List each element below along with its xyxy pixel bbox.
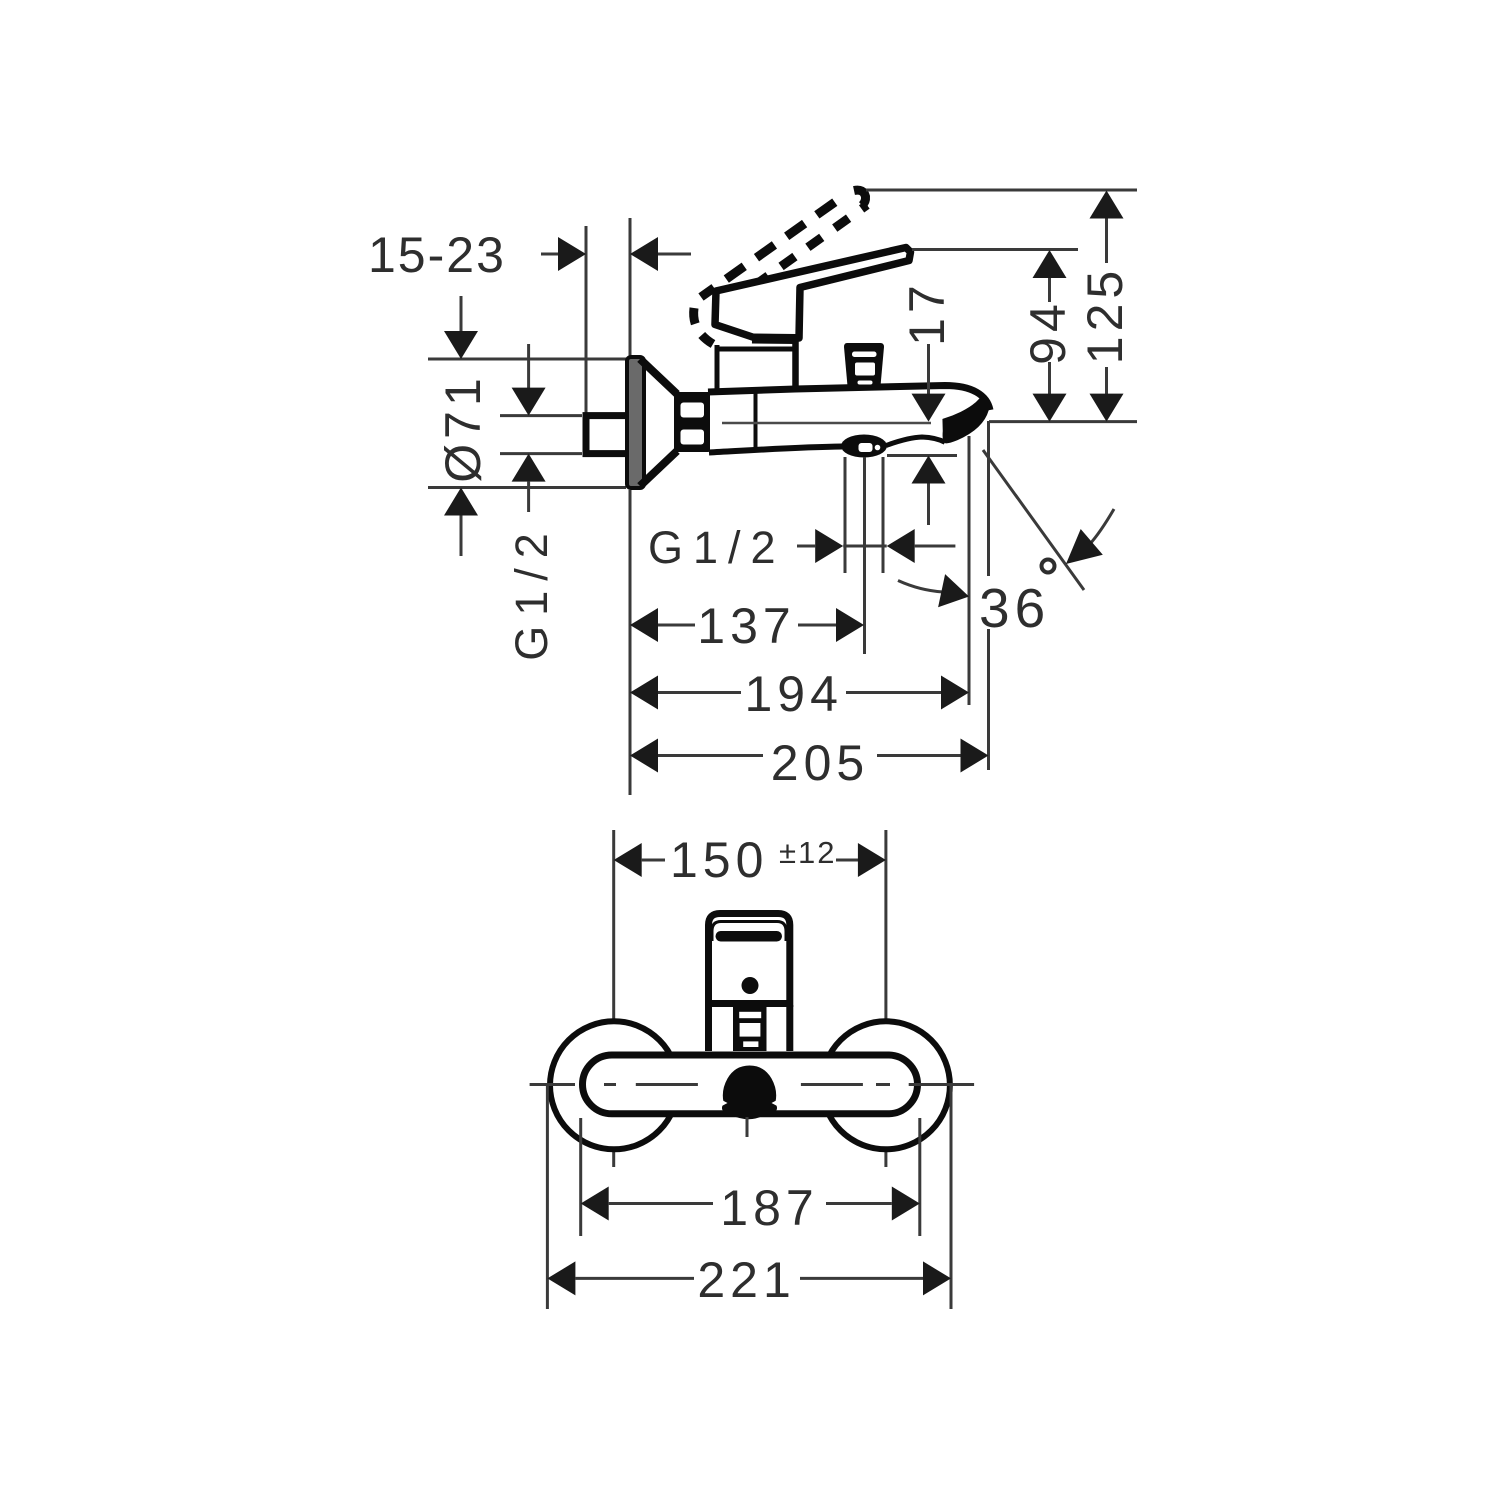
left escutcheon circle — [550, 1021, 678, 1149]
svg-text:G1/2: G1/2 — [648, 522, 786, 573]
label 221 — [697, 1252, 795, 1308]
svg-text:137: 137 — [697, 598, 795, 654]
svg-text:94: 94 — [1020, 299, 1076, 365]
wire: pipe-dia line top y=415.6 — [500, 414, 582, 417]
dimension 150 +-12 — [614, 843, 886, 877]
front centerline tick below blob — [746, 1117, 749, 1137]
label 137 — [697, 598, 795, 654]
label G1/2 horizontal — [648, 522, 786, 573]
wire: 221 extension line left x=547.4 — [546, 1086, 549, 1309]
wire: extension line right connection x=885.9 — [884, 830, 887, 1167]
svg-text:36: 36 — [979, 577, 1050, 639]
dimension 137 — [630, 608, 864, 642]
lever raised dashed bottom edge — [716, 205, 867, 313]
aerator bump — [841, 435, 887, 458]
wire: reference line spout bottom y=455.5 — [887, 454, 957, 457]
label 194 — [744, 666, 842, 722]
dimension 17 — [912, 344, 946, 525]
wire: 187 extension line right x=919.8 — [918, 1118, 921, 1236]
body joint line — [754, 391, 758, 450]
svg-text:205: 205 — [771, 735, 869, 791]
wire: extension line wall-min x=586 — [585, 226, 588, 414]
pipe stub — [586, 416, 630, 454]
escutcheon cone bottom edge — [640, 451, 677, 486]
wire: extension line aerator left x=845 — [844, 457, 847, 573]
diverter knob — [844, 343, 884, 386]
lever raised dashed top edge — [701, 194, 847, 298]
svg-text:Ø71: Ø71 — [435, 373, 491, 483]
label 36deg — [979, 560, 1055, 640]
wire: extension line spout end x=988.5 — [987, 421, 990, 770]
dimension 125 — [1090, 191, 1124, 422]
36 degree arc arrow right — [1066, 509, 1114, 564]
handle dark band — [716, 931, 783, 942]
label G1/2 rotated — [506, 523, 557, 661]
dimension 94 — [1033, 250, 1067, 422]
svg-text:±12: ±12 — [779, 835, 837, 870]
svg-text:17: 17 — [899, 280, 955, 346]
label 15-23 — [368, 227, 506, 283]
body top edge — [708, 386, 990, 411]
wire: pipe-dia line bottom y=453.6 — [500, 452, 582, 455]
wire: extension line aerator right x=883 — [882, 457, 885, 573]
wire: 221 extension line right x=951 — [950, 1086, 953, 1309]
escutcheon left face — [627, 357, 644, 488]
dimension 205 — [630, 739, 989, 773]
svg-text:G1/2: G1/2 — [506, 523, 557, 661]
wire: O71 extension line top y=359 — [428, 358, 626, 361]
label 187 — [720, 1180, 818, 1236]
wire: extension line left connection x=613.7 — [612, 830, 615, 1167]
handle front view outer — [709, 914, 790, 1004]
escutcheon neck nut — [674, 392, 710, 452]
wire: O71 extension line bottom y=487.5 — [428, 486, 626, 489]
cartridge block — [715, 288, 796, 390]
label O71 rotated — [435, 373, 491, 483]
lever handle — [715, 248, 911, 340]
wire: extension line aerator center x=864.5 — [863, 457, 866, 654]
label 125 rotated — [1077, 266, 1133, 364]
handle lower walls — [709, 1005, 790, 1051]
label 94 rotated — [1020, 299, 1076, 365]
wire: extension line wall-face x=630 lower — [629, 490, 632, 795]
svg-text:221: 221 — [697, 1252, 795, 1308]
dimension G1/2 vertical arrows — [512, 344, 546, 512]
spout nose blob — [719, 1066, 780, 1120]
dimension O71 arrows — [444, 296, 478, 556]
dimension G1/2 horizontal — [797, 529, 955, 563]
spout outlet crescent — [943, 396, 988, 443]
right escutcheon circle — [822, 1021, 950, 1149]
wire: reference line outlet level y=421.6 — [989, 420, 1137, 423]
spout underside right — [886, 437, 945, 446]
lever raised dashed pivot arc — [694, 308, 713, 344]
svg-text:194: 194 — [744, 666, 842, 722]
lever raised dashed end hook — [854, 190, 866, 205]
dimension 187 — [581, 1187, 920, 1221]
handle dot — [742, 977, 759, 994]
36 degree outlet line — [983, 450, 1084, 590]
wire: reference line lever-open level y=190 — [866, 189, 1137, 192]
label 150 plus-minus 12 — [670, 832, 837, 888]
body bottom edge — [709, 447, 842, 453]
wire: extension line wall-face x=630 upper — [629, 218, 632, 356]
front horizontal centerline — [530, 1083, 975, 1086]
wire: reference line lever-closed level y=249.5 — [912, 248, 1078, 251]
svg-text:125: 125 — [1077, 266, 1133, 364]
wire: 187 extension line left x=580.7 — [579, 1118, 582, 1236]
svg-text:150: 150 — [670, 832, 768, 888]
36 degree arc arrow left — [898, 574, 969, 607]
body capsule — [583, 1055, 918, 1114]
dimension 194 — [630, 676, 969, 710]
body centerline — [722, 422, 931, 425]
label 205 — [771, 735, 869, 791]
dimension 221 — [547, 1261, 951, 1295]
wire: extension line spout tip x=969 — [968, 436, 971, 705]
dimension 15-23 line — [541, 237, 691, 271]
svg-text:187: 187 — [720, 1180, 818, 1236]
handle collar stack — [733, 1007, 767, 1051]
svg-text:15-23: 15-23 — [368, 227, 506, 283]
label 17 rotated — [899, 280, 955, 346]
handle inner top line — [712, 922, 786, 942]
escutcheon cone top edge — [640, 359, 677, 394]
